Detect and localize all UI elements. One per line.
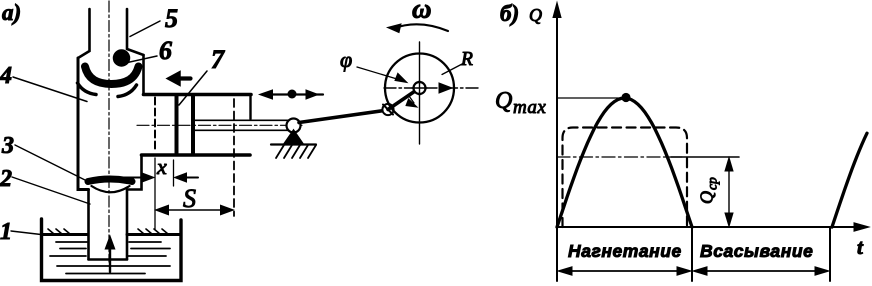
link rod to crank [299,111,384,123]
valve chest right wall upper [142,55,145,93]
svg-text:x: x [156,154,167,179]
suction pipe 2 walls [87,190,90,259]
crank vertical centerline [419,42,421,144]
svg-text:max: max [513,97,546,118]
svg-text:φ: φ [340,47,352,72]
x dimension left arrow [113,177,150,179]
crank circle [385,54,454,123]
svg-text:1: 1 [0,219,12,245]
suction pipe bottom edge [89,258,128,261]
valve chest right wall lower [127,157,142,190]
R radius arrow head [439,83,452,93]
t axis [557,226,860,228]
Qmax level line [557,97,621,99]
piston left face [175,97,179,154]
crank arm [388,88,420,110]
piston rod top line [195,119,288,121]
S dimension line [158,209,231,211]
discharge pipe 5 walls [78,9,90,58]
svg-text:5: 5 [165,4,178,33]
leader 6 [123,56,157,64]
S dimension extension line [154,158,156,229]
svg-text:Всасывание: Всасывание [700,241,813,261]
water ripples [56,241,161,243]
peak dot [621,93,630,102]
valve 6 ball [114,50,130,66]
center pin cross [412,81,427,96]
Q axis [556,10,558,281]
svg-text:6: 6 [159,36,172,65]
svg-text:2: 2 [0,166,12,192]
leader 5 [130,21,160,37]
Qcp label (rotated) [697,177,720,204]
Qcp solid segment [671,156,739,158]
svg-text:Q: Q [529,5,542,25]
water surface right [127,233,180,236]
suction valve 3 bowl arc [92,186,130,192]
pump vertical centerline [108,1,110,262]
Qcp dash-dot level line [557,156,682,158]
Qcp arrow [728,163,730,221]
water surface left [43,233,88,236]
band separator right [829,227,831,281]
cylinder bore head (dashed) [154,98,156,153]
svg-text:ω: ω [412,0,432,24]
water surface hatch ticks [48,229,168,234]
angle small arrow [409,96,414,103]
reciprocating double arrow [262,93,323,95]
svg-text:а): а) [2,0,21,25]
crank pin slash [383,105,393,115]
svg-text:ср: ср [705,177,720,190]
band separator left [691,227,693,281]
cylinder right end above rod [249,96,251,119]
phi leader arrow [357,67,402,81]
suction valve 3 plate [88,179,132,182]
delivery valve 6 bowl [85,67,139,85]
support triangle [284,130,304,145]
omega arc arrow [393,24,448,31]
svg-text:7: 7 [211,45,225,74]
svg-text:Q: Q [697,191,717,204]
valve 6 right flow arrow [118,85,137,97]
leader 2 [12,177,90,204]
x dimension right arrow [179,177,198,179]
rod axis dash-dot [137,124,302,126]
crank horizontal centerline dash-dot [384,87,478,89]
leader 3 [15,145,89,182]
cylinder top wall [144,93,252,97]
next pulse curve [832,133,867,227]
ground hatching [276,145,316,158]
stroke-end dashed line [233,99,235,216]
svg-text:б): б) [500,1,519,26]
leader 7 [179,71,207,105]
suction flow arrow [109,243,111,272]
tank 1 [42,219,182,281]
svg-text:S: S [183,184,196,213]
valve chest left wall [78,58,89,190]
ball joint [287,119,301,133]
piston right face [191,97,195,154]
valve 6 left flow arrow [78,83,97,95]
ground line [271,143,316,145]
dashed equivalent rectangle [563,128,688,228]
svg-text:R: R [460,49,473,70]
svg-text:3: 3 [1,133,14,159]
outlet flow arrow [178,76,191,80]
x dimension extension line (piston face) [173,160,175,186]
svg-text:Нагнетание: Нагнетание [568,241,682,261]
cylinder bottom wall [142,153,251,157]
crank pin [382,104,393,115]
reciprocating dot [288,90,297,99]
center pin [414,82,426,94]
svg-text:4: 4 [0,63,12,89]
piston rod bottom line [195,129,288,131]
svg-text:Q: Q [495,88,512,114]
R leader [442,63,464,75]
leader 4 [13,77,87,102]
flow pulse (half sine) [557,98,692,227]
suction span arrow [698,270,823,272]
leader 1 [11,231,41,235]
discharge span arrow [563,270,686,272]
